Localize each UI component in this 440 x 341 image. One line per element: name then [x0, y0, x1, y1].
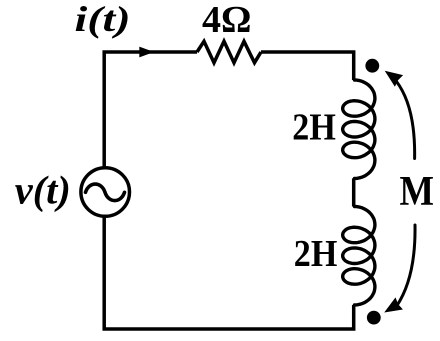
svg-text:v(t): v(t)	[15, 168, 71, 213]
svg-text:4Ω: 4Ω	[202, 0, 251, 41]
svg-text:2H: 2H	[294, 233, 338, 275]
svg-text:i(t): i(t)	[75, 0, 131, 39]
svg-text:2H: 2H	[292, 107, 336, 149]
svg-text:M: M	[400, 169, 435, 215]
